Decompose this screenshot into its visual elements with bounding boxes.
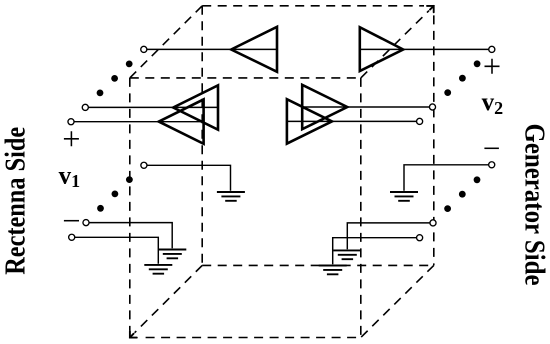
svg-text:v1: v1 (59, 162, 81, 191)
svg-text:Rectenna Side: Rectenna Side (1, 127, 32, 275)
svg-text:Generator Side: Generator Side (519, 124, 550, 286)
svg-text:v2: v2 (482, 89, 504, 118)
